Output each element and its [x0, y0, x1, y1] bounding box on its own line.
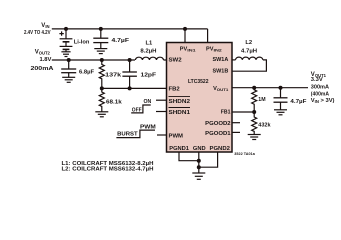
wire SHDN1 pin	[156, 111, 167, 113]
node junction dot C3 bottom FB2	[128, 86, 132, 90]
ground battery	[61, 52, 70, 57]
wire PGND2 drop	[199, 152, 218, 167]
wire GND drop	[198, 152, 200, 173]
svg-text:432k: 432k	[258, 123, 271, 129]
wire VIN top rail	[52, 28, 208, 30]
wire SW1A to L2	[232, 59, 236, 61]
node junction dot battery on VIN rail	[64, 27, 68, 31]
wire VOUT1 line	[232, 87, 308, 89]
svg-text:4.7µF: 4.7µF	[290, 99, 306, 105]
battery BT1 Li-Ion	[60, 29, 73, 52]
svg-text:BURST: BURST	[117, 132, 138, 138]
node junction dot PVIN1 on VIN rail	[183, 27, 187, 31]
svg-text:PGOOD1: PGOOD1	[205, 131, 231, 137]
inductor L2 4.7uH	[232, 57, 266, 71]
svg-text:VIN: VIN	[41, 23, 49, 29]
svg-text:PGND2: PGND2	[210, 146, 230, 152]
wire PVIN2 drop	[207, 29, 209, 43]
svg-text:L2: COILCRAFT MSS6132-4.7µH: L2: COILCRAFT MSS6132-4.7µH	[62, 167, 154, 173]
svg-text:68.1k: 68.1k	[106, 100, 123, 106]
node junction dot C2 on VOUT2 rail	[67, 58, 71, 62]
svg-text:PGOOD2: PGOOD2	[205, 121, 231, 127]
svg-text:SW1B: SW1B	[213, 68, 229, 74]
ground C-IN	[94, 49, 107, 54]
ground C2	[62, 77, 75, 82]
svg-text:1.8V: 1.8V	[39, 57, 51, 63]
svg-text:FB1: FB1	[221, 109, 231, 115]
node junction dot PGND1 bus	[197, 159, 201, 163]
svg-text:SW1A: SW1A	[213, 57, 229, 63]
svg-text:6.8µF: 6.8µF	[79, 70, 95, 76]
ground R2	[95, 112, 108, 117]
svg-text:12pF: 12pF	[141, 73, 157, 79]
wire PWM pin	[157, 134, 167, 136]
svg-text:PVIN2: PVIN2	[206, 46, 223, 52]
svg-text:4.7µF: 4.7µF	[112, 38, 130, 44]
svg-text:GND: GND	[193, 146, 206, 152]
svg-text:3.3V: 3.3V	[311, 77, 323, 83]
node junction dot PGND2 bus	[197, 165, 201, 169]
svg-text:L1: L1	[146, 40, 154, 46]
svg-text:LTC3522: LTC3522	[188, 79, 209, 85]
svg-text:SHDN1: SHDN1	[169, 110, 191, 116]
wire PWM/BURST logic step symbol	[116, 130, 155, 138]
wire FB2 line	[102, 87, 167, 89]
svg-text:VIN > 3V): VIN > 3V)	[311, 98, 335, 104]
wire PVIN1 drop	[184, 29, 186, 43]
svg-text:PVIN1: PVIN1	[180, 46, 197, 52]
wire PGOOD2 stub	[232, 122, 240, 124]
svg-text:ON: ON	[144, 99, 152, 105]
resistor R2 68.1k	[99, 88, 104, 111]
svg-text:PWM: PWM	[169, 133, 184, 139]
capacitor C-IN 4.7uF	[93, 29, 108, 49]
node junction dot R1/R2 FB2	[100, 86, 104, 90]
capacitor C2 6.8uF	[61, 60, 76, 77]
svg-text:3522 TA01a: 3522 TA01a	[234, 152, 256, 156]
node junction dot R3 top	[252, 86, 256, 90]
svg-text:SHDN2: SHDN2	[169, 99, 191, 105]
wire ON/OFF logic step symbol	[131, 105, 151, 113]
svg-text:L2: L2	[245, 40, 252, 46]
resistor R4 432k	[252, 112, 257, 135]
ground C4	[274, 110, 287, 115]
svg-text:4.7µH: 4.7µH	[241, 49, 257, 55]
ground IC	[192, 173, 205, 179]
wire VOUT2 rail	[52, 59, 135, 61]
capacitor C4 4.7uF output	[274, 88, 288, 110]
svg-text:PGND1: PGND1	[169, 146, 189, 152]
svg-text:(400mA: (400mA	[311, 92, 330, 98]
svg-text:300mA: 300mA	[311, 85, 330, 91]
svg-text:2.4V TO 4.2V: 2.4V TO 4.2V	[24, 30, 51, 36]
node junction dot C-IN on VIN rail	[99, 27, 103, 31]
inductor L1 8.2uH	[135, 57, 166, 60]
node junction dot C3 top on VOUT2 rail	[128, 58, 132, 62]
IC U1 LTC3522 body	[167, 43, 233, 153]
wire PGND1 drop	[179, 152, 199, 161]
svg-text:1M: 1M	[258, 97, 265, 103]
svg-text:137k: 137k	[105, 72, 122, 78]
svg-text:200mA: 200mA	[31, 66, 55, 72]
svg-text:SW2: SW2	[169, 57, 182, 63]
battery BT1 Li-Ion plus sign	[59, 31, 63, 35]
svg-text:8.2µH: 8.2µH	[140, 49, 156, 55]
wire PGOOD1 stub	[232, 131, 240, 133]
node junction dot FB1	[252, 110, 256, 114]
wire SHDN2 pin	[156, 99, 167, 101]
resistor R3 1M	[252, 88, 257, 112]
node junction dot C4 top	[279, 86, 283, 90]
capacitor C3 12pF	[122, 60, 136, 88]
ground R4	[248, 135, 261, 140]
wire FB1 pin	[232, 111, 254, 113]
svg-text:Li-Ion: Li-Ion	[74, 40, 90, 46]
resistor R1 137k	[99, 60, 104, 88]
svg-text:FB2: FB2	[169, 87, 180, 93]
svg-text:VOUT1: VOUT1	[213, 86, 229, 92]
svg-text:VOUT2: VOUT2	[35, 50, 51, 56]
node junction dot R1 top on VOUT2 rail	[100, 58, 104, 62]
